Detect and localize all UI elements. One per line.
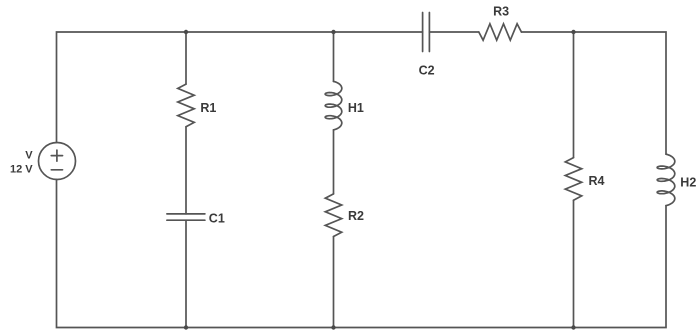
node junction top branch3 [571,30,575,34]
node junction top branch1 [184,30,188,34]
wire branch2 top [333,32,335,81]
wire left-top to top rail (corner at 56.5,32) [57,32,423,143]
svg-text:C2: C2 [419,64,435,78]
svg-text:H1: H1 [348,101,364,115]
wire H1 to R2 [333,130,335,194]
wire R3 to right rail (corner at 666,32) [521,32,666,154]
capacitor C2 [423,13,430,52]
wire branch1 top [185,32,187,84]
wire R2 to bottom [333,237,335,328]
svg-text:C1: C1 [209,212,225,226]
wire R4 to bottom [573,200,575,327]
svg-text:R2: R2 [348,209,364,223]
wire C2 to R3 [429,31,478,33]
resistor R3 [479,24,522,40]
resistor R4 [565,158,581,201]
resistor R1 [178,84,194,127]
svg-text:R4: R4 [589,174,605,188]
svg-text:R1: R1 [200,101,216,115]
svg-text:V: V [25,150,33,162]
capacitor C1 [167,214,205,220]
wire branch3 top [573,32,575,158]
node junction bottom branch2 [331,325,335,329]
resistor R2 [325,194,341,237]
node junction bottom branch1 [184,325,188,329]
svg-text:H2: H2 [680,175,696,189]
svg-text:12 V: 12 V [10,164,33,176]
wire R1 to C1 [185,127,187,214]
node junction top branch2 [331,30,335,34]
voltage source V [39,143,76,180]
node junction bottom branch3 [571,325,575,329]
inductor H2 [657,154,675,205]
wire C1 to bottom [185,220,187,327]
wire right-bottom, bottom rail, left-bottom (corners at 666,327.5 and 56.5,327.5) [57,180,667,328]
inductor H1 [325,81,342,129]
svg-text:R3: R3 [493,5,509,19]
